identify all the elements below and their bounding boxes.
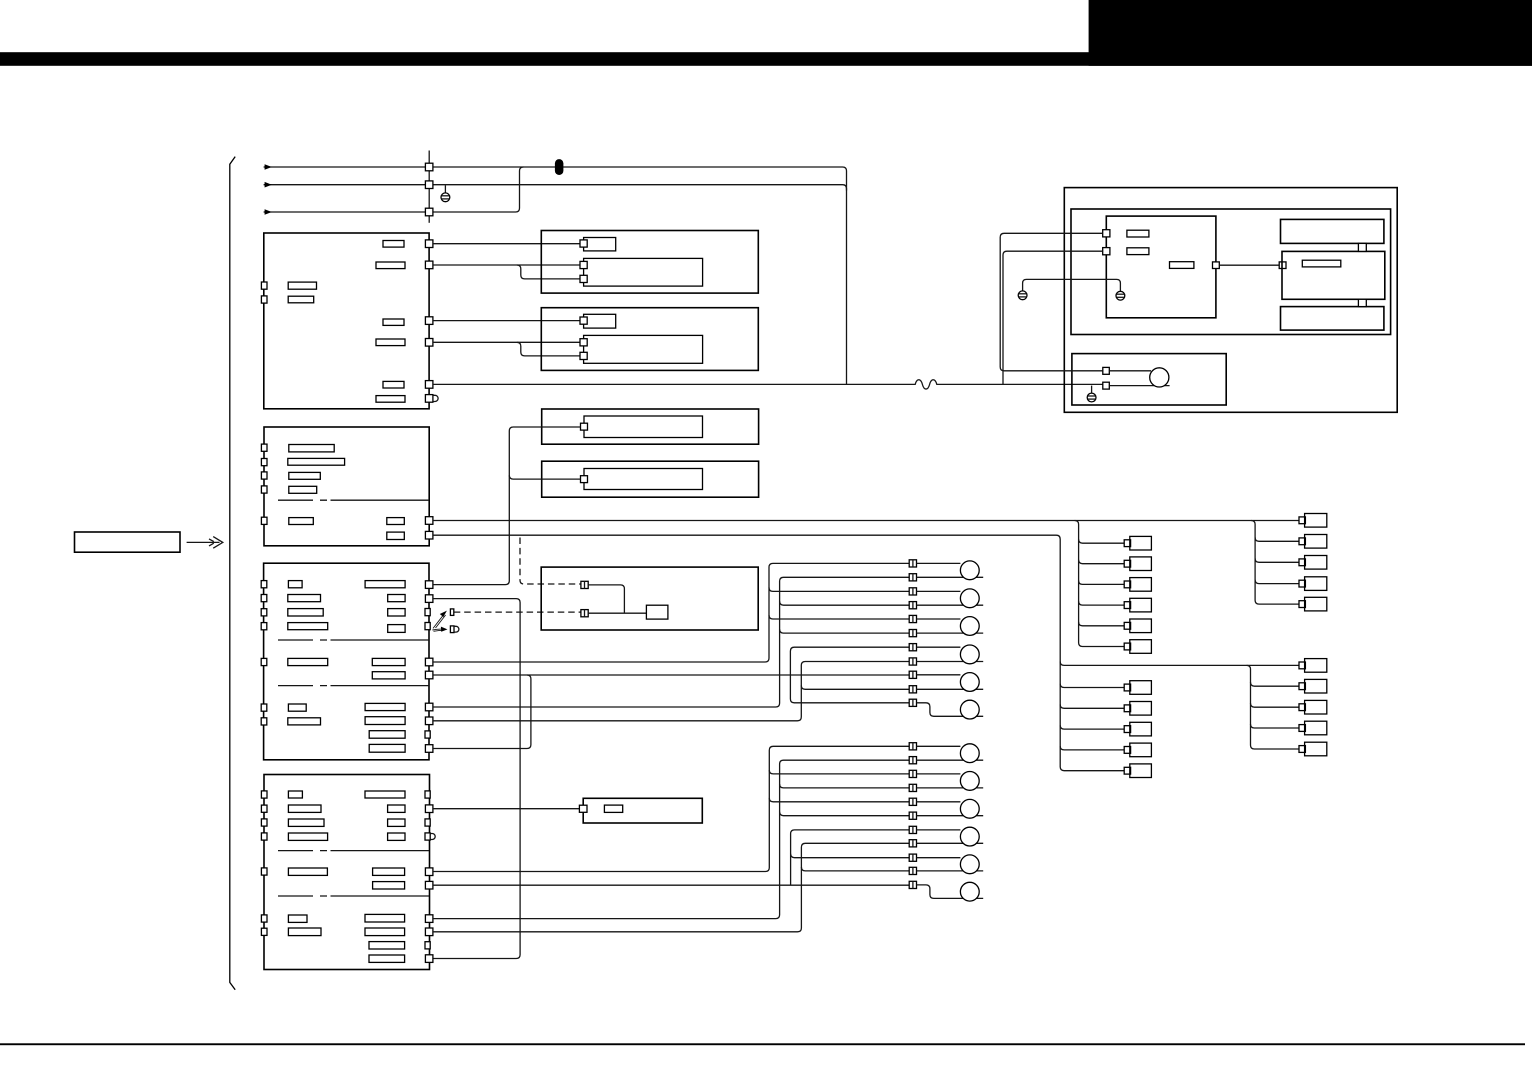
- connector M pin 2: [581, 610, 588, 617]
- module box C: [264, 427, 429, 546]
- connector column CL plug 1: [1124, 536, 1151, 550]
- module box B2: [541, 308, 758, 371]
- connector A-P5: [425, 381, 433, 389]
- wire feed riser B to transformer pin2: [1003, 251, 1103, 384]
- wire fan pin1: [1109, 370, 1151, 372]
- wire M internal link: [588, 585, 624, 613]
- module box C2: [542, 461, 759, 497]
- connector fuse block pin: [1279, 262, 1286, 269]
- label plate N1: [604, 805, 622, 812]
- connector column DL plug 3: [1124, 722, 1151, 736]
- connector E left tab 6: [261, 915, 267, 922]
- separator line in box D lower: [278, 685, 429, 687]
- connector column DL plug 2: [1124, 702, 1151, 716]
- wire branch P6-bus down to D-P10: [433, 675, 531, 749]
- wire riser V2b branch row6b: [780, 812, 910, 816]
- connector D-P2: [425, 595, 433, 603]
- relay block B1a: [584, 238, 616, 251]
- connector service tab S1: [450, 609, 453, 616]
- label plate E16: [369, 942, 405, 949]
- wire SPB pair 4 positive: [917, 829, 961, 831]
- wire SPA pair 1 positive: [917, 562, 961, 564]
- separator line in box C: [278, 499, 429, 501]
- connector E edge tab T3: [425, 819, 430, 826]
- connector T pin 1: [1103, 230, 1110, 237]
- wire column CL branch: [1079, 622, 1125, 626]
- terminal lug SPB 2: [960, 772, 979, 791]
- header black title block: [1089, 0, 1532, 66]
- header rule band: [0, 52, 1532, 66]
- wire AC line L2: [264, 182, 847, 191]
- harness bracket: [230, 157, 235, 990]
- connector E hooked tab: [425, 833, 435, 840]
- wire SPA pair 4 negative: [917, 661, 984, 663]
- connector E edge tab T9: [425, 942, 430, 949]
- label plate D1: [288, 581, 302, 588]
- switch block C2: [584, 469, 703, 490]
- terminal lug SPB 1: [960, 744, 979, 763]
- connector B2b pin 2: [580, 352, 587, 359]
- wire SPA pair 1 negative: [917, 576, 984, 578]
- node AC terminal strip: [428, 151, 430, 223]
- connector AC pin 3: [425, 208, 433, 216]
- label plate T2: [1127, 248, 1149, 255]
- label plate C7: [387, 532, 405, 539]
- label plate E4: [288, 833, 327, 840]
- connector link top-mid: [1358, 243, 1366, 251]
- wire SPA pair 4 positive: [917, 646, 961, 648]
- connector E-P3: [425, 881, 433, 889]
- wire E-P3 bus to speaker row 11b: [433, 884, 909, 886]
- label plate E11: [388, 833, 405, 840]
- connector B1b pin 2: [580, 275, 587, 282]
- connector D left tab 6: [261, 704, 267, 711]
- wire riser V3 up to row7: [790, 647, 909, 675]
- label plate D4: [288, 623, 328, 630]
- relay block B1b: [584, 258, 703, 286]
- connector B1b pin 1: [580, 261, 587, 268]
- wire SPB pair 3 positive: [917, 801, 961, 803]
- wire SPA pair 2 negative: [917, 604, 984, 606]
- wire AC line L3: [264, 167, 524, 215]
- wire A-P5 power bus with break symbol: [433, 380, 1103, 389]
- connector column CL plug 5: [1124, 619, 1151, 633]
- connector column DL plug 1: [1124, 681, 1151, 695]
- connector C left tab 5: [261, 517, 267, 524]
- connector column DR plug 2: [1299, 679, 1327, 693]
- wire A-P4 to B2 main: [433, 341, 580, 343]
- terminal lug SPB 6: [960, 882, 979, 901]
- connector E left tab 4: [261, 833, 267, 840]
- connector E left tab 7: [261, 928, 267, 935]
- wire D-P6 bus to speaker row 9: [433, 674, 909, 676]
- wire riser V4 branch row10: [801, 685, 909, 689]
- separator line in box E lower: [278, 895, 429, 897]
- power unit inner box: [1071, 209, 1391, 335]
- connector C left tab 4: [261, 486, 267, 493]
- wire ground bar: [1023, 279, 1121, 291]
- wire D-P1 to C1/C2 riser: [433, 427, 581, 585]
- connector column CL plug 4: [1124, 598, 1151, 612]
- terminal lug SPA 1: [960, 561, 979, 580]
- connector column DL plug 5: [1124, 764, 1151, 778]
- wire SPA pair 3 negative: [917, 632, 984, 634]
- terminal lug SPB 3: [960, 799, 979, 818]
- wire riser V2 branch row6: [780, 629, 910, 633]
- label plate E14: [365, 914, 405, 922]
- terminal lug SPA 6: [960, 700, 979, 719]
- label plate D10: [388, 609, 405, 616]
- wire net C-O1 bus: [433, 520, 1299, 522]
- connector C1 pin: [581, 423, 588, 430]
- motor unit box N: [583, 798, 702, 823]
- wire branch A-P4 to B2 lower pin: [517, 342, 580, 356]
- connector D left tab 7: [261, 718, 267, 725]
- connector M pin 1: [581, 581, 588, 588]
- wire riser V2b branch row4b: [780, 784, 910, 788]
- connector speaker SPB row 8: [909, 840, 916, 847]
- connector speaker SPB row 1: [909, 743, 916, 750]
- connector column CR plug 4: [1299, 577, 1327, 591]
- label plate A2: [376, 262, 405, 269]
- wire E-P1 to motor box: [433, 808, 580, 810]
- connector D left tab 3: [261, 609, 267, 616]
- label plate E10: [388, 819, 405, 826]
- connector speaker SPA row 1: [909, 560, 916, 567]
- fuse block bottom box: [1281, 307, 1384, 331]
- connector speaker SPB row 4: [909, 784, 916, 791]
- connector column CL plug 2: [1124, 557, 1151, 571]
- wire A-P2 to B1 main: [433, 264, 580, 266]
- wire drop to column CL: [1075, 521, 1125, 647]
- label plate C1: [289, 445, 334, 452]
- connector D-P7: [425, 703, 433, 711]
- connector B1a pin: [580, 240, 587, 247]
- connector D left tab 5: [261, 658, 267, 665]
- connector speaker SPB row 7: [909, 826, 916, 833]
- connector column DR plug 4: [1299, 721, 1327, 735]
- connector D left tab 4: [261, 623, 267, 630]
- wire spur to column DR: [1060, 662, 1299, 666]
- wire column CL branch: [1079, 581, 1125, 585]
- connector speaker SPB row 10: [909, 867, 916, 874]
- wire column CR branch: [1255, 558, 1299, 562]
- label plate D2: [288, 595, 321, 602]
- label plate A8: [288, 296, 314, 303]
- wire D-P5 to speaker row 1/3/5 riser: [433, 563, 909, 662]
- relay coil M: [646, 605, 668, 619]
- label plate D16: [369, 731, 405, 739]
- wire riser V1 branch row5: [769, 615, 909, 619]
- module box B1: [541, 231, 758, 294]
- wire column DR branch: [1251, 682, 1300, 686]
- relay unit box M: [541, 567, 758, 630]
- connector speaker SPA row 9: [909, 671, 916, 678]
- wire D-P2 down-feed to E side: [433, 599, 520, 959]
- connector column CL plug 6: [1124, 640, 1151, 654]
- label plate F1: [1302, 260, 1341, 267]
- label plate D9: [388, 595, 405, 602]
- wire E-P2 to speaker row 1b/3b/5b riser: [433, 746, 909, 871]
- connector AC pin 2: [425, 181, 433, 189]
- wire dashed service link row 1: [454, 611, 581, 613]
- label plate E12: [373, 868, 405, 875]
- label plate E13: [373, 882, 405, 889]
- connector E left tab 5: [261, 868, 267, 875]
- ground lug left: [1018, 291, 1027, 300]
- connector B2b pin 1: [580, 339, 587, 346]
- label plate C5: [289, 518, 314, 525]
- connector D edge tab T3: [425, 609, 430, 616]
- wire SPA pair 5 positive: [917, 674, 961, 676]
- label plate C4: [289, 486, 317, 493]
- terminal lug SPA 3: [960, 617, 979, 636]
- module box D: [264, 563, 429, 760]
- label plate D6: [288, 704, 306, 711]
- connector column CR plug 1: [1299, 514, 1327, 528]
- connector speaker SPA row 10: [909, 686, 916, 693]
- connector speaker SPA row 5: [909, 615, 916, 622]
- wire fan pin2: [1109, 385, 1169, 387]
- label plate A3: [383, 319, 404, 325]
- connector speaker SPB row 6: [909, 812, 916, 819]
- label plate D11: [388, 625, 405, 633]
- wire column DR branch: [1251, 724, 1300, 728]
- connector T pin 2: [1103, 248, 1110, 255]
- connector D-P8: [425, 717, 433, 725]
- connector A-P1: [425, 240, 433, 248]
- wire column DL branch: [1060, 725, 1124, 729]
- label plate D14: [365, 703, 405, 710]
- manual operation arrows: [432, 611, 447, 632]
- wire SPB pair 3 negative: [917, 815, 984, 817]
- connector speaker SPA row 7: [909, 644, 916, 651]
- connector D edge tab T9: [425, 731, 430, 738]
- wire SPB pair 2 positive: [917, 773, 961, 775]
- ground chassis near AC: [441, 185, 450, 201]
- label plate E2: [288, 805, 321, 812]
- label plate D5: [288, 658, 328, 665]
- connector E edge tab T1: [425, 791, 430, 798]
- connector A left tab 2: [261, 296, 267, 303]
- wire riser V3b up to row7b: [791, 830, 910, 885]
- fuse block top box: [1281, 219, 1384, 243]
- label plate T1: [1127, 230, 1149, 237]
- connector D left tab 1: [261, 581, 267, 588]
- connector E-P4: [425, 915, 433, 923]
- connector E-P1: [425, 805, 433, 813]
- connector fan pin 2: [1103, 382, 1110, 389]
- connector speaker SPA row 3: [909, 588, 916, 595]
- wire D-P8 to speaker row 8/10 riser: [433, 662, 909, 721]
- reference label box: [75, 532, 181, 552]
- wire A-P1 to B1: [433, 243, 580, 245]
- connector N pin: [579, 805, 587, 812]
- connector speaker SPB row 5: [909, 798, 916, 805]
- wire SPB pair 4 negative: [917, 842, 984, 844]
- wire net C-O2 bus: [433, 535, 1124, 771]
- separator line in box E upper: [278, 850, 429, 852]
- label plate D13: [372, 672, 405, 679]
- connector E-P5: [425, 928, 433, 936]
- connector column DR plug 3: [1299, 700, 1327, 714]
- label plate A7: [288, 282, 316, 289]
- label plate D17: [369, 744, 405, 752]
- wire column CL branch: [1079, 601, 1125, 605]
- label plate D3: [288, 609, 323, 616]
- label plate D12: [372, 658, 405, 665]
- connector C-O2: [425, 531, 433, 539]
- separator line in box D upper: [278, 639, 429, 641]
- wire E-P4 to speaker row 2b/4b/6b riser: [433, 760, 909, 918]
- connector D-P6: [425, 671, 433, 679]
- transformer sub box: [1106, 216, 1216, 318]
- wire branch riser to C2: [509, 475, 580, 479]
- connector column DR plug 5: [1299, 742, 1327, 756]
- connector speaker SPA row 2: [909, 574, 916, 581]
- wire column CR branch: [1255, 580, 1299, 584]
- fan unit box: [1072, 354, 1226, 405]
- relay block B2a: [584, 314, 616, 328]
- connector column CL plug 3: [1124, 578, 1151, 592]
- wire SPA pair 3 positive: [917, 618, 961, 620]
- connector D-P10: [425, 745, 433, 753]
- label plate C3: [289, 472, 321, 479]
- wire column DL branch: [1060, 684, 1124, 688]
- connector speaker SPB row 9: [909, 854, 916, 861]
- connector A left tab 1: [261, 282, 267, 289]
- terminal lug SPB 4: [960, 827, 979, 846]
- connector fan pin 1: [1103, 367, 1110, 374]
- label plate E1: [288, 791, 302, 798]
- connector D-P1: [425, 581, 433, 589]
- connector D edge tab T4: [425, 623, 430, 630]
- label plate A4: [376, 339, 405, 346]
- wire column CR branch: [1255, 537, 1299, 541]
- wire drop to column CR: [1251, 521, 1299, 605]
- connector A-P3: [425, 317, 433, 325]
- label plate D15: [365, 717, 405, 725]
- terminal lug SPA 4: [960, 645, 979, 664]
- connector speaker SPB row 2: [909, 757, 916, 764]
- connector E left tab 1: [261, 791, 267, 798]
- fan motor symbol: [1150, 368, 1169, 387]
- connector D-P5: [425, 658, 433, 666]
- connector speaker SPA row 4: [909, 602, 916, 609]
- connector C2 pin: [581, 476, 588, 483]
- wire SPB loop to terminal 6: [917, 885, 984, 899]
- terminal lug SPB 5: [960, 855, 979, 874]
- label plate A5: [383, 381, 404, 388]
- connector C-O1: [425, 517, 433, 525]
- label plate T3: [1170, 262, 1194, 269]
- label plate E7: [288, 928, 321, 936]
- connector speaker SPA row 8: [909, 658, 916, 665]
- connector E-P6: [425, 955, 433, 963]
- label plate A1: [383, 241, 404, 248]
- wire branch A-P2 to B1 lower pin: [517, 265, 580, 279]
- connector column CR plug 3: [1299, 556, 1327, 570]
- connector A-P4: [425, 339, 433, 347]
- label plate E6: [288, 915, 307, 922]
- label plate C6: [387, 518, 405, 525]
- wire column DR branch: [1251, 703, 1300, 707]
- wire dashed link C-O2 to relay box: [520, 538, 581, 585]
- wire SPB pair 5 negative: [917, 870, 984, 872]
- wire SPB pair 1 negative: [917, 759, 984, 761]
- ground lug right: [1116, 291, 1125, 300]
- label plate E9: [388, 805, 405, 812]
- stub loop on A-P6: [433, 395, 438, 401]
- label plate E17: [369, 955, 405, 962]
- wire riser V3 down to row11: [790, 675, 909, 703]
- wire drop to column DR: [1247, 665, 1299, 749]
- connector speaker SPB row 11: [909, 881, 916, 888]
- wire T out to fuse block: [1219, 264, 1279, 266]
- wire A-P3 to B2: [433, 320, 580, 322]
- wire SPB pair 1 positive: [917, 745, 961, 747]
- connector speaker SPA row 6: [909, 630, 916, 637]
- connector C left tab 3: [261, 472, 267, 479]
- connector T out pin: [1213, 262, 1220, 269]
- wire M pin2 to coil: [588, 612, 646, 614]
- wire riser V3b branch row9b: [791, 854, 910, 858]
- terminal lug SPA 2: [960, 589, 979, 608]
- connector column DR plug 1: [1299, 659, 1327, 673]
- reference arrow: [187, 537, 223, 549]
- connector E left tab 3: [261, 819, 267, 826]
- connector C left tab 2: [261, 459, 267, 466]
- connector B2a pin: [580, 317, 587, 324]
- wire SPA pair 2 positive: [917, 590, 961, 592]
- label plate E15: [365, 928, 405, 936]
- wire feed riser A to transformer pin1 and fan pin1: [1000, 233, 1103, 370]
- wire D-P7 to speaker row 2/4/6 riser: [433, 577, 909, 707]
- power unit outer box: [1064, 188, 1397, 413]
- wire column CL branch: [1079, 560, 1125, 564]
- connector E left tab 2: [261, 805, 267, 812]
- switch block C1: [584, 416, 703, 438]
- wire SPB pair 5 positive: [917, 857, 961, 859]
- module box E: [264, 775, 430, 970]
- label plate D8: [365, 581, 405, 588]
- wire riser V2 branch row4: [780, 601, 910, 605]
- connector AC pin 1: [425, 163, 433, 171]
- label plate E5: [288, 868, 327, 875]
- ferrite bead on L1: [555, 159, 564, 175]
- terminal lug SPA 5: [960, 673, 979, 692]
- wire riser V1b branch row3b: [769, 770, 909, 774]
- label plate C2: [288, 458, 345, 465]
- fuse block mid box: [1282, 251, 1385, 299]
- wire riser V4b branch row10b: [801, 867, 909, 871]
- connector E-P2: [425, 868, 433, 876]
- wire riser V1 branch row3: [769, 588, 909, 592]
- wire column CL branch: [1079, 539, 1125, 543]
- connector speaker SPB row 3: [909, 770, 916, 777]
- connector speaker SPA row 11: [909, 699, 916, 706]
- relay block B2b: [584, 335, 703, 363]
- wire AC line L1: [264, 164, 847, 384]
- label plate A6: [376, 396, 405, 403]
- module box C1: [542, 409, 759, 444]
- label plate E3: [288, 819, 324, 826]
- connector column CR plug 2: [1299, 535, 1327, 549]
- wire column DL branch: [1060, 704, 1124, 708]
- connector link mid-bottom: [1358, 299, 1366, 306]
- label plate E8: [365, 791, 405, 798]
- label plate D7: [288, 718, 321, 725]
